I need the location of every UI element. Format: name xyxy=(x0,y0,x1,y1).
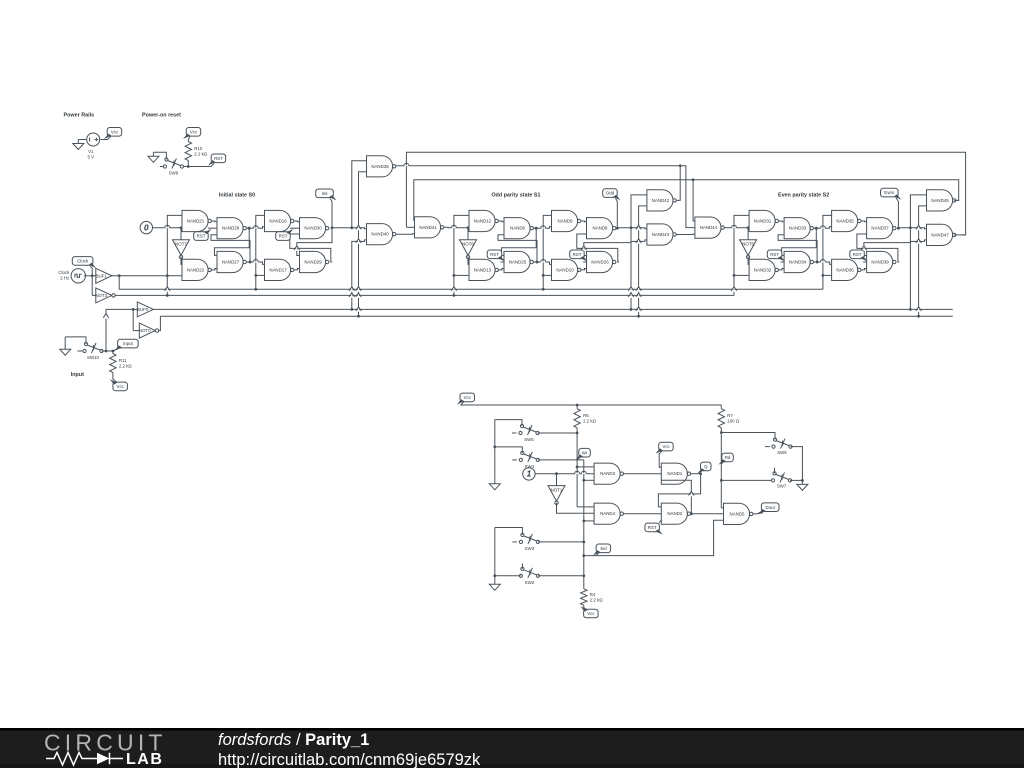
hop source line over Sel rail xyxy=(581,473,586,474)
wire SW10 throw to ground xyxy=(65,337,86,344)
NAND gate NAND12 xyxy=(469,210,498,231)
leader Dout arrow xyxy=(757,511,765,514)
junction on input bus xyxy=(909,308,912,311)
net flag Vcc xyxy=(580,606,598,618)
svg-text:RST: RST xyxy=(490,252,499,257)
input bus tap wire upper xyxy=(352,161,367,228)
wire RST to NAND28 xyxy=(208,227,217,229)
NAND gate NAND21 xyxy=(182,210,211,231)
feedback NAND1 to NAND2 xyxy=(658,474,700,507)
wire top rail to NAND41 middle input xyxy=(406,226,414,228)
wire RST to NAND34 xyxy=(781,261,785,263)
wire Rd to NAND5 top xyxy=(721,507,723,509)
net flag Vcc xyxy=(457,393,475,405)
clock rail col3 of NAND35 xyxy=(823,215,832,289)
junction NAND28 out xyxy=(248,227,251,230)
wire RST to NAND2 bottom xyxy=(659,520,661,522)
junction NAND8 out xyxy=(616,227,619,230)
ground at V1 xyxy=(73,140,84,150)
svg-text:NAND1: NAND1 xyxy=(667,471,682,476)
wire 0 source to S0 input xyxy=(153,227,183,229)
wire SW2 to Sel rail xyxy=(538,575,584,577)
wire NAND16 out to NAND30 xyxy=(294,220,300,223)
junction Sel to NAND4 xyxy=(582,520,585,523)
wire SW3 throw to rail xyxy=(495,528,523,535)
wire NAND5 out xyxy=(753,513,757,515)
svg-text:2.2 kΩ: 2.2 kΩ xyxy=(583,419,597,424)
hop over col3 rail low xyxy=(541,261,546,262)
net flag Init xyxy=(316,189,337,201)
RST flag at NAND39 xyxy=(850,250,868,262)
switch SW4 xyxy=(519,451,539,469)
net flag Q xyxy=(697,462,711,474)
wire NOT5 out to NAND32 xyxy=(748,256,749,264)
wire NAND17 out to NAND29 xyxy=(294,269,300,270)
svg-text:SW6: SW6 xyxy=(777,450,787,455)
junction col3 rail to NAND17 xyxy=(254,274,257,277)
junction rail to NAND44 xyxy=(692,178,695,181)
wire SW4 throw to left rail xyxy=(495,447,523,453)
cross-coupling wires at x=231 xyxy=(215,228,250,255)
junction on input bus xyxy=(350,308,353,311)
input bus tap wire lower xyxy=(352,240,367,310)
Vcc flag at V1 xyxy=(104,128,122,140)
svg-text:Init: Init xyxy=(322,191,329,196)
wire NAND4 out to NAND2 xyxy=(624,513,662,515)
wire rail to NAND41 top input xyxy=(413,220,416,222)
wire into NOT0 xyxy=(133,330,139,332)
clock rail col1 of NAND31 xyxy=(734,215,749,295)
NAND gate NAND17 xyxy=(265,259,294,280)
wire NOT7 out to NAND22 xyxy=(181,256,182,264)
ground at SW5 SW4 xyxy=(489,480,500,490)
svg-text:NAND16: NAND16 xyxy=(269,219,287,224)
svg-text:Wr: Wr xyxy=(582,450,588,455)
wire Vcc to R10 xyxy=(188,137,190,142)
svg-text:SW7: SW7 xyxy=(777,484,787,489)
wire input to NOT7 xyxy=(180,228,182,240)
hop col1 rail over clock bus xyxy=(453,287,454,292)
NAND gate NAND16 xyxy=(265,210,294,231)
cross-coupling wires slave pair at x=314 xyxy=(297,228,332,256)
inverter NOT7 xyxy=(173,240,190,259)
junction Q xyxy=(699,472,702,475)
svg-text:NOT6: NOT6 xyxy=(462,242,474,247)
inverter NOT3 xyxy=(95,288,115,303)
svg-text:R11: R11 xyxy=(119,358,127,363)
wire NOT6 out to NAND13 xyxy=(468,256,469,264)
junction SW6 xyxy=(720,431,723,434)
svg-text:NAND13: NAND13 xyxy=(474,267,492,272)
switch SW5 xyxy=(519,424,539,442)
wire NOT1 out to NAND4 xyxy=(557,503,595,513)
Wr rail from R5 xyxy=(576,428,578,507)
input bus tap wire lower xyxy=(910,240,926,310)
switch SW10 xyxy=(83,342,103,360)
clock source xyxy=(71,269,85,283)
stub SW4 xyxy=(512,459,517,461)
NAND gate NAND9 xyxy=(552,210,581,231)
wire NAND3 out to NAND1 xyxy=(624,473,662,475)
junction on inverted input bus xyxy=(357,315,360,318)
svg-text:SW2: SW2 xyxy=(525,580,535,585)
leader Sel xyxy=(596,553,599,556)
svg-text:NAND27: NAND27 xyxy=(222,260,240,265)
net flag Dout xyxy=(758,503,779,515)
NAND gate NAND4 xyxy=(594,503,623,524)
resistor R11 xyxy=(110,354,133,373)
wire RST to NAND39 xyxy=(863,261,867,263)
junction col1 rail on inverted clock bus xyxy=(453,294,456,297)
svg-text:RST: RST xyxy=(573,252,582,257)
svg-text:Q: Q xyxy=(704,464,708,469)
svg-text:Power Rails: Power Rails xyxy=(64,113,95,119)
wire NAND33 out to NAND35 xyxy=(814,227,832,229)
svg-text:Vcc: Vcc xyxy=(587,611,595,616)
cross-coupling wires slave pair at x=881 xyxy=(864,228,911,256)
svg-text:NAND42: NAND42 xyxy=(652,198,670,203)
junction SW3 xyxy=(582,541,585,544)
svg-text:Initial state S0: Initial state S0 xyxy=(219,193,255,199)
NAND gate NAND45 xyxy=(927,190,956,211)
wire SW6 common to ground rail xyxy=(791,447,803,481)
svg-text:Vcc: Vcc xyxy=(190,129,198,134)
wire input to NOT0 xyxy=(132,309,134,330)
hop over col3 rail xyxy=(253,228,258,229)
wire Wr rail to NAND4 top xyxy=(577,506,594,508)
wire NAND6 out to NAND9 xyxy=(533,227,551,229)
svg-text:NAND5: NAND5 xyxy=(730,511,745,516)
wire NAND2 out to NAND5 xyxy=(691,513,724,515)
clock rail col1 of NAND21 xyxy=(167,215,182,295)
Vcc flag at R11 xyxy=(110,379,128,391)
svg-text:Clock: Clock xyxy=(58,270,70,275)
NAND gate NAND36 xyxy=(832,259,861,280)
svg-text:R10: R10 xyxy=(194,146,203,151)
wire SW9 to R10 node xyxy=(184,166,189,168)
svg-text:NAND33: NAND33 xyxy=(789,226,807,231)
svg-text:Even parity state S2: Even parity state S2 xyxy=(778,193,829,199)
junction ground rail xyxy=(801,479,804,482)
junction Sel flag xyxy=(582,554,585,557)
net flag Wr xyxy=(576,448,591,460)
wire Sel to NAND3 bottom xyxy=(584,479,594,481)
wire clock to NOT3 xyxy=(91,276,93,296)
svg-text:NAND22: NAND22 xyxy=(187,267,205,272)
input bus tap wire upper xyxy=(910,195,926,228)
svg-text:5 V: 5 V xyxy=(88,155,95,160)
NAND gate NAND3 xyxy=(594,463,623,484)
switch SW2 xyxy=(519,567,539,585)
NAND gate NAND44 xyxy=(695,217,724,238)
svg-text:NAND4: NAND4 xyxy=(600,511,615,516)
junction R5 SW5 xyxy=(576,432,579,435)
svg-text:2.2 kΩ: 2.2 kΩ xyxy=(119,363,133,368)
svg-text:RST: RST xyxy=(648,525,657,530)
wire input to NOT6 xyxy=(467,228,469,240)
svg-text:NAND36: NAND36 xyxy=(836,267,854,272)
wire R10 to SW9 node xyxy=(187,161,189,167)
stub SW5 xyxy=(512,432,517,434)
wire NAND12 out to NAND6 xyxy=(498,220,504,223)
hop over col3 rail xyxy=(820,228,825,229)
wire rail to NAND10 bottom xyxy=(543,274,551,276)
svg-text:NAND45: NAND45 xyxy=(931,198,949,203)
junction NAND27 out xyxy=(249,261,252,264)
junction SW10 input node xyxy=(105,350,108,353)
hop input line over col1 rail xyxy=(732,227,737,228)
wire NAND40 out to NAND41 xyxy=(396,233,414,235)
svg-text:NAND39: NAND39 xyxy=(871,260,889,265)
wire input to NAND12 xyxy=(468,227,469,229)
svg-text:Input: Input xyxy=(71,372,84,378)
junction on inverted input bus xyxy=(917,315,920,318)
wire rail to NAND32 bottom xyxy=(734,274,749,276)
svg-text:fordsfords / Parity_1: fordsfords / Parity_1 xyxy=(218,731,369,749)
stub SW2 throw xyxy=(521,564,523,569)
junction input fanout xyxy=(132,308,135,311)
junction on inverted input bus xyxy=(637,315,640,318)
wire NAND31 out to NAND33 xyxy=(779,220,785,223)
ground at SW9 xyxy=(148,152,159,162)
NAND gate NAND28 xyxy=(217,218,246,239)
inverted input bus line xyxy=(160,315,952,317)
wire rail to SW2 xyxy=(495,575,521,577)
wire NAND9 out to NAND8 xyxy=(581,220,587,223)
wire NAND22 out to NAND27 xyxy=(211,269,217,270)
bottom Vcc rail xyxy=(461,402,721,405)
input bus tap wire lower xyxy=(631,240,647,310)
svg-text:Vcc: Vcc xyxy=(464,395,472,400)
svg-text:SW9: SW9 xyxy=(169,171,179,176)
RST flag at NAND28 xyxy=(194,229,212,241)
wire down to clock bus xyxy=(118,276,120,290)
NAND gate NAND40 xyxy=(367,224,396,245)
wire source to NAND3 xyxy=(535,473,594,475)
digital source 1 xyxy=(523,468,535,480)
svg-text:Clock: Clock xyxy=(77,259,89,264)
svg-text:R4: R4 xyxy=(590,592,596,597)
wire SW6 throw to Rd rail xyxy=(721,433,775,440)
svg-text:Vcc: Vcc xyxy=(117,384,125,389)
hop input line over col1 rail xyxy=(165,227,170,228)
svg-text:R5: R5 xyxy=(583,413,589,418)
wire input node up to BUF0 xyxy=(105,309,107,351)
junction NAND25 out xyxy=(536,261,539,264)
footer title text xyxy=(218,731,481,768)
svg-text:Vcc: Vcc xyxy=(111,129,119,134)
voltage source xyxy=(87,133,100,146)
wire Rd rail to SW7 xyxy=(721,479,771,481)
svg-text:NAND41: NAND41 xyxy=(419,225,437,230)
NAND gate NAND27 xyxy=(217,251,246,272)
svg-text:RST: RST xyxy=(853,252,862,257)
junction NAND6 out xyxy=(535,227,538,230)
ground right of SW7 xyxy=(797,480,808,490)
cross-coupling wires slave pair at x=600 xyxy=(584,228,631,256)
wire RST to NAND25 xyxy=(501,261,505,263)
inverter NOT5 xyxy=(740,240,757,259)
wire node to RST flag xyxy=(188,164,214,167)
stub SW6 xyxy=(765,446,770,448)
svg-text:NAND34: NAND34 xyxy=(789,260,807,265)
wire rail to NAND13 bottom xyxy=(454,274,469,276)
wire SW9 throw to ground xyxy=(153,152,166,159)
wire NAND36 out to NAND39 xyxy=(861,269,867,270)
NAND gate NAND29 xyxy=(300,251,329,272)
leader wire Even xyxy=(896,198,898,228)
wire SW4 to Sel rail xyxy=(538,459,584,461)
resistor R4 xyxy=(581,589,604,605)
wire input to NOT5 xyxy=(747,228,749,240)
junction R5 top xyxy=(576,404,579,407)
middle rail NAND38 out to NAND44 xyxy=(396,166,695,228)
junction tap on state line xyxy=(350,226,353,229)
wire NAND25 out to NAND10 xyxy=(533,262,551,264)
wire BUF1 out to S0 and clock bus xyxy=(111,275,182,277)
stub SW10 open throw xyxy=(78,350,83,352)
svg-text:NOT3: NOT3 xyxy=(95,293,107,298)
NAND gate NAND33 xyxy=(784,218,813,239)
net flag Rd xyxy=(719,453,734,465)
clock rail col3 of NAND16 xyxy=(256,215,265,289)
leader wire Odd xyxy=(616,198,618,228)
svg-text:NAND37: NAND37 xyxy=(871,226,889,231)
switch SW9 xyxy=(163,158,183,176)
buffer BUF0 xyxy=(137,302,153,317)
wire SW5 throw to left rail xyxy=(495,420,522,426)
junction S0 col1 rail xyxy=(166,274,169,277)
svg-text:RST: RST xyxy=(214,156,223,161)
junction NAND42 out on middle rail xyxy=(679,164,682,167)
svg-text:Power-on reset: Power-on reset xyxy=(142,113,181,119)
svg-text:V1: V1 xyxy=(88,149,94,154)
state line NAND8 out to stage1 pair xyxy=(617,227,647,230)
junction R11 top xyxy=(112,350,115,353)
junction NAND33 out xyxy=(815,227,818,230)
svg-text:NAND6: NAND6 xyxy=(510,226,525,231)
junction clock fanout xyxy=(91,274,94,277)
hop input line over col1 rail xyxy=(451,227,456,228)
wire NAND35 out to NAND37 xyxy=(861,220,867,223)
wire SW7 to ground rail xyxy=(790,479,802,481)
inverted clock bus line xyxy=(115,294,734,296)
state line NAND37 out to stage2 pair xyxy=(898,227,926,230)
hop over col3 rail low xyxy=(820,261,825,262)
svg-text:Odd parity state S1: Odd parity state S1 xyxy=(491,193,540,199)
svg-text:NOT5: NOT5 xyxy=(742,242,754,247)
wire input to NAND31 xyxy=(748,227,749,229)
RST flag at NAND25 xyxy=(487,250,505,262)
net flag Odd xyxy=(603,189,621,201)
wire SW3 to Sel rail xyxy=(538,541,584,543)
svg-text:Dout: Dout xyxy=(766,505,776,510)
junction NOT7 input tap xyxy=(180,226,183,229)
switch SW3 xyxy=(519,533,539,551)
junction col1 rail to NAND32 xyxy=(733,274,736,277)
top feedback rail from NAND47 to NAND41 xyxy=(406,152,965,235)
junction clock bus drop xyxy=(118,274,121,277)
NAND gate NAND26 xyxy=(587,251,616,272)
junction on input bus xyxy=(630,308,633,311)
left ground rail upper xyxy=(494,420,496,480)
hop feedback crossing xyxy=(691,491,692,496)
svg-text:SW5: SW5 xyxy=(524,437,534,442)
svg-text:NAND30: NAND30 xyxy=(304,226,322,231)
junction R10 SW9 RST xyxy=(187,165,190,168)
stub SW3 xyxy=(512,541,517,543)
svg-text:NAND43: NAND43 xyxy=(652,232,670,237)
svg-text:NAND35: NAND35 xyxy=(836,219,854,224)
wire R11 to Vcc flag xyxy=(113,373,117,383)
wire Sel to NAND4 bottom xyxy=(584,520,594,522)
resistor R5 xyxy=(574,409,597,428)
wire NAND44 out to S2 latch input xyxy=(724,227,749,229)
NAND gate NAND42 xyxy=(647,190,676,211)
leader Wr xyxy=(577,457,580,460)
wire NAND45 out xyxy=(954,199,959,201)
wire input node to BUF0 xyxy=(106,308,138,310)
junction NAND37 out xyxy=(897,227,900,230)
wire NAND34 out to NAND36 xyxy=(814,262,832,264)
Clock net flag xyxy=(72,257,96,269)
RST flag at NAND26 xyxy=(570,250,588,262)
hop source line over Wr rail xyxy=(575,473,580,474)
wire V1 to Vcc flag xyxy=(100,137,110,140)
svg-text:Vcc: Vcc xyxy=(662,444,670,449)
hop NAND38 out over rail xyxy=(404,165,409,166)
wire V1 to ground xyxy=(78,139,86,141)
wire Vcc to NAND1 top xyxy=(659,451,662,467)
NAND gate NAND25 xyxy=(504,251,533,272)
svg-text:Rd: Rd xyxy=(725,455,731,460)
junction SW7 xyxy=(720,479,723,482)
junction left rail xyxy=(493,446,496,449)
NAND gate NAND39 xyxy=(867,251,896,272)
junction NAND34 out xyxy=(816,261,819,264)
RST flag at NAND34 xyxy=(767,250,785,262)
junction col3 rail to NAND36 xyxy=(822,274,825,277)
svg-text:NAND12: NAND12 xyxy=(474,219,492,224)
CircuitLab logo xyxy=(44,730,167,768)
wire RST to NAND30 xyxy=(290,227,300,229)
junction source fanout xyxy=(555,472,558,475)
svg-text:NAND3: NAND3 xyxy=(600,471,615,476)
wire R4 to Vcc xyxy=(584,605,587,610)
NAND gate NAND13 xyxy=(469,259,498,280)
Input net flag xyxy=(114,339,138,351)
wire source down to NOT1 xyxy=(556,474,558,486)
NAND gate NAND34 xyxy=(784,251,813,272)
svg-text:Odd: Odd xyxy=(606,191,615,196)
wire rail to NAND17 bottom xyxy=(256,274,265,276)
inverter NOT6 xyxy=(460,240,477,259)
NAND gate NAND6 xyxy=(504,218,533,239)
RST flag at NAND30 xyxy=(276,229,294,241)
resistor R7 xyxy=(718,409,740,428)
junction Init leader xyxy=(331,226,334,229)
wire NAND47 out xyxy=(954,234,965,236)
NAND gate NAND38 xyxy=(367,156,396,177)
junction NAND2 out xyxy=(690,512,693,515)
inverter NOT1 xyxy=(548,486,565,505)
clock rail col3 of NAND9 xyxy=(543,215,551,289)
wire NAND10 out to NAND26 xyxy=(581,269,587,270)
svg-text:RST: RST xyxy=(197,234,206,239)
hop col1 rail over clock bus xyxy=(167,287,168,292)
buffer BUF1 xyxy=(96,268,112,283)
wire NAND41 out to S1 latch input xyxy=(444,226,469,229)
